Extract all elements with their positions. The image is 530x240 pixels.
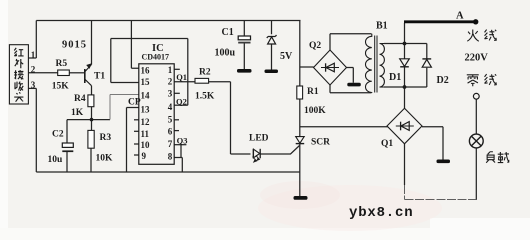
- svg-text:2: 2: [31, 65, 36, 75]
- svg-text:R3: R3: [100, 133, 112, 143]
- capacitor C2: [48, 130, 74, 166]
- wire secondary top: [384, 43, 427, 45]
- wire pin3 stub: [174, 92, 180, 94]
- svg-text:R4: R4: [74, 94, 86, 104]
- ground Q1: [437, 160, 451, 164]
- wire junction horizontal C2-CP: [67, 119, 110, 121]
- wire C2 bottom stem: [66, 152, 68, 172]
- wire receiver pin1 stub: [28, 57, 36, 59]
- wire D1 column: [404, 23, 406, 108]
- svg-text:B1: B1: [376, 21, 388, 32]
- wire R3 bottom: [90, 148, 92, 172]
- wire R4 to junction: [91, 107, 93, 131]
- label huoxian (live wire): [467, 30, 496, 42]
- svg-text:Q3: Q3: [177, 136, 188, 146]
- svg-text:A: A: [456, 10, 464, 21]
- wire C1 stems: [243, 21, 245, 70]
- wire IC outer box left + pin15: [111, 39, 139, 83]
- wire SCR cathode to ground: [299, 143, 301, 196]
- wire pin2 to R2: [174, 81, 195, 83]
- svg-text:11: 11: [141, 129, 150, 139]
- svg-text:C2: C2: [52, 130, 64, 140]
- svg-text:SCR: SCR: [311, 138, 330, 148]
- node junction R4/C2/CP: [90, 118, 94, 122]
- terminal circle: [473, 93, 479, 99]
- wire pin12 stub: [134, 119, 139, 121]
- svg-text:7: 7: [168, 139, 173, 149]
- bridge Q1: [381, 108, 422, 149]
- wire lamp bottom: [475, 148, 477, 200]
- svg-text:ybx8.cn: ybx8.cn: [349, 205, 413, 221]
- svg-text:T1: T1: [94, 72, 105, 82]
- svg-text:220V: 220V: [465, 53, 489, 64]
- lamp load: [469, 134, 483, 148]
- svg-text:3: 3: [168, 89, 173, 99]
- transformer B1: [365, 21, 387, 93]
- label lingxian (neutral wire): [467, 74, 496, 86]
- svg-text:5: 5: [168, 115, 173, 125]
- svg-text:12: 12: [141, 117, 151, 127]
- svg-text:10K: 10K: [96, 154, 114, 164]
- svg-text:2: 2: [168, 77, 173, 87]
- wire Q2 bottom to transformer: [330, 85, 372, 93]
- wire receiver pin3 stub: [28, 87, 36, 89]
- wire pin4 stub: [174, 104, 188, 106]
- svg-text:Q1: Q1: [381, 139, 393, 149]
- ground zener: [265, 70, 279, 74]
- svg-text:1: 1: [168, 65, 173, 75]
- resistor R1: [297, 86, 326, 116]
- wire pin8 to rail: [174, 158, 182, 173]
- wire main bus upper: [299, 21, 301, 87]
- wire left vertical lower: [35, 88, 37, 172]
- wire LED to SCR gate: [261, 146, 300, 155]
- wire T1 collector up: [91, 21, 93, 65]
- wire R5 to T1 base: [69, 72, 84, 74]
- svg-text:15: 15: [141, 77, 151, 87]
- svg-text:10: 10: [141, 140, 151, 150]
- LED: [249, 134, 269, 163]
- transistor T1: [85, 63, 106, 85]
- wire zener stems: [271, 21, 273, 70]
- wire secondary bottom: [384, 86, 427, 88]
- node D1 top: [403, 42, 407, 46]
- wire IC outer box top: [111, 38, 188, 40]
- wire Q1 right to ground: [422, 127, 443, 160]
- ground C1: [237, 69, 252, 73]
- wire pin9 stub: [134, 154, 139, 156]
- wire rail to IC pin16: [131, 21, 138, 69]
- wire lamp top: [475, 99, 477, 134]
- capacitor C1: [215, 27, 251, 59]
- svg-text:100K: 100K: [304, 106, 326, 116]
- wire pin1 stub: [174, 68, 180, 70]
- wire pin13 down to rail: [127, 108, 139, 173]
- diode D1: [389, 59, 409, 83]
- svg-text:1K: 1K: [71, 108, 84, 118]
- watermark smudge: [258, 181, 442, 231]
- wire Q1 bottom down: [404, 144, 406, 185]
- wire IC outer box right: [187, 39, 189, 106]
- svg-text:10u: 10u: [48, 155, 64, 165]
- ground SCR: [294, 196, 308, 200]
- resistor R2: [195, 68, 215, 102]
- wire bus to Q2 left: [300, 66, 314, 68]
- svg-text:15K: 15K: [52, 82, 69, 92]
- wire pin11 stub: [134, 130, 139, 132]
- resistor R4: [71, 94, 94, 118]
- wire pin5 stub: [174, 119, 179, 121]
- svg-text:D2: D2: [437, 75, 449, 86]
- wire bottom right gray: [405, 185, 477, 200]
- svg-text:8: 8: [168, 152, 173, 162]
- wire C2 top stem: [66, 120, 68, 143]
- svg-text:9015: 9015: [62, 40, 87, 51]
- svg-text:1: 1: [31, 50, 36, 60]
- svg-text:C1: C1: [222, 27, 234, 38]
- IR receiver module (hong wai jie shou tou): [9, 45, 35, 104]
- resistor R3: [88, 130, 113, 163]
- wire receiver pin2 to R5: [28, 72, 57, 74]
- svg-text:3: 3: [31, 80, 36, 90]
- svg-text:LED: LED: [249, 134, 269, 144]
- svg-text:R1: R1: [307, 87, 319, 97]
- ground Q2: [347, 83, 361, 87]
- wire R2 right corner down: [209, 82, 231, 154]
- label fuzai (load): [486, 152, 509, 163]
- wire pin6 stub: [174, 130, 179, 132]
- svg-text:13: 13: [141, 105, 151, 115]
- svg-text:9: 9: [142, 151, 147, 161]
- diode D2: [422, 59, 449, 86]
- wire pin7 stub: [174, 144, 186, 146]
- wire bottom rail: [36, 171, 300, 173]
- wire Q2 top: [330, 34, 372, 50]
- svg-text:14: 14: [141, 91, 151, 101]
- zener diode 5V: [267, 35, 293, 62]
- wire CP path gray: [110, 95, 139, 120]
- svg-text:R5: R5: [56, 59, 68, 69]
- wire D2 column: [426, 44, 428, 88]
- node D1 bottom: [403, 85, 407, 89]
- svg-text:Q1: Q1: [176, 72, 187, 82]
- wire pin10 stub: [134, 143, 139, 145]
- wire pin7 to pin8 link: [180, 145, 182, 158]
- svg-text:4: 4: [168, 102, 173, 112]
- resistor R5: [52, 59, 70, 92]
- svg-text:CD4017: CD4017: [142, 53, 170, 62]
- svg-text:Q2: Q2: [176, 97, 187, 107]
- svg-text:100u: 100u: [215, 48, 236, 59]
- bridge Q2: [309, 41, 347, 85]
- wire SCR to Q1 left: [300, 126, 388, 128]
- wire top rail: [36, 20, 300, 22]
- svg-text:R2: R2: [199, 68, 211, 78]
- svg-text:D1: D1: [389, 72, 401, 83]
- thyristor SCR: [296, 137, 330, 148]
- svg-text:CP: CP: [128, 98, 141, 108]
- wire to LED: [231, 153, 251, 155]
- svg-text:Q2: Q2: [309, 41, 321, 51]
- svg-text:1.5K: 1.5K: [195, 92, 215, 102]
- IC U1 CD4017: [139, 43, 174, 164]
- wire left vertical upper: [35, 21, 37, 59]
- wire T1 emitter to R4: [91, 86, 93, 95]
- wire R1 to SCR: [299, 99, 301, 137]
- svg-text:16: 16: [141, 66, 151, 76]
- svg-text:6: 6: [168, 127, 173, 137]
- wire Q2 right to ground: [347, 68, 354, 83]
- svg-text:5V: 5V: [280, 51, 293, 62]
- live wire thick: [404, 10, 478, 24]
